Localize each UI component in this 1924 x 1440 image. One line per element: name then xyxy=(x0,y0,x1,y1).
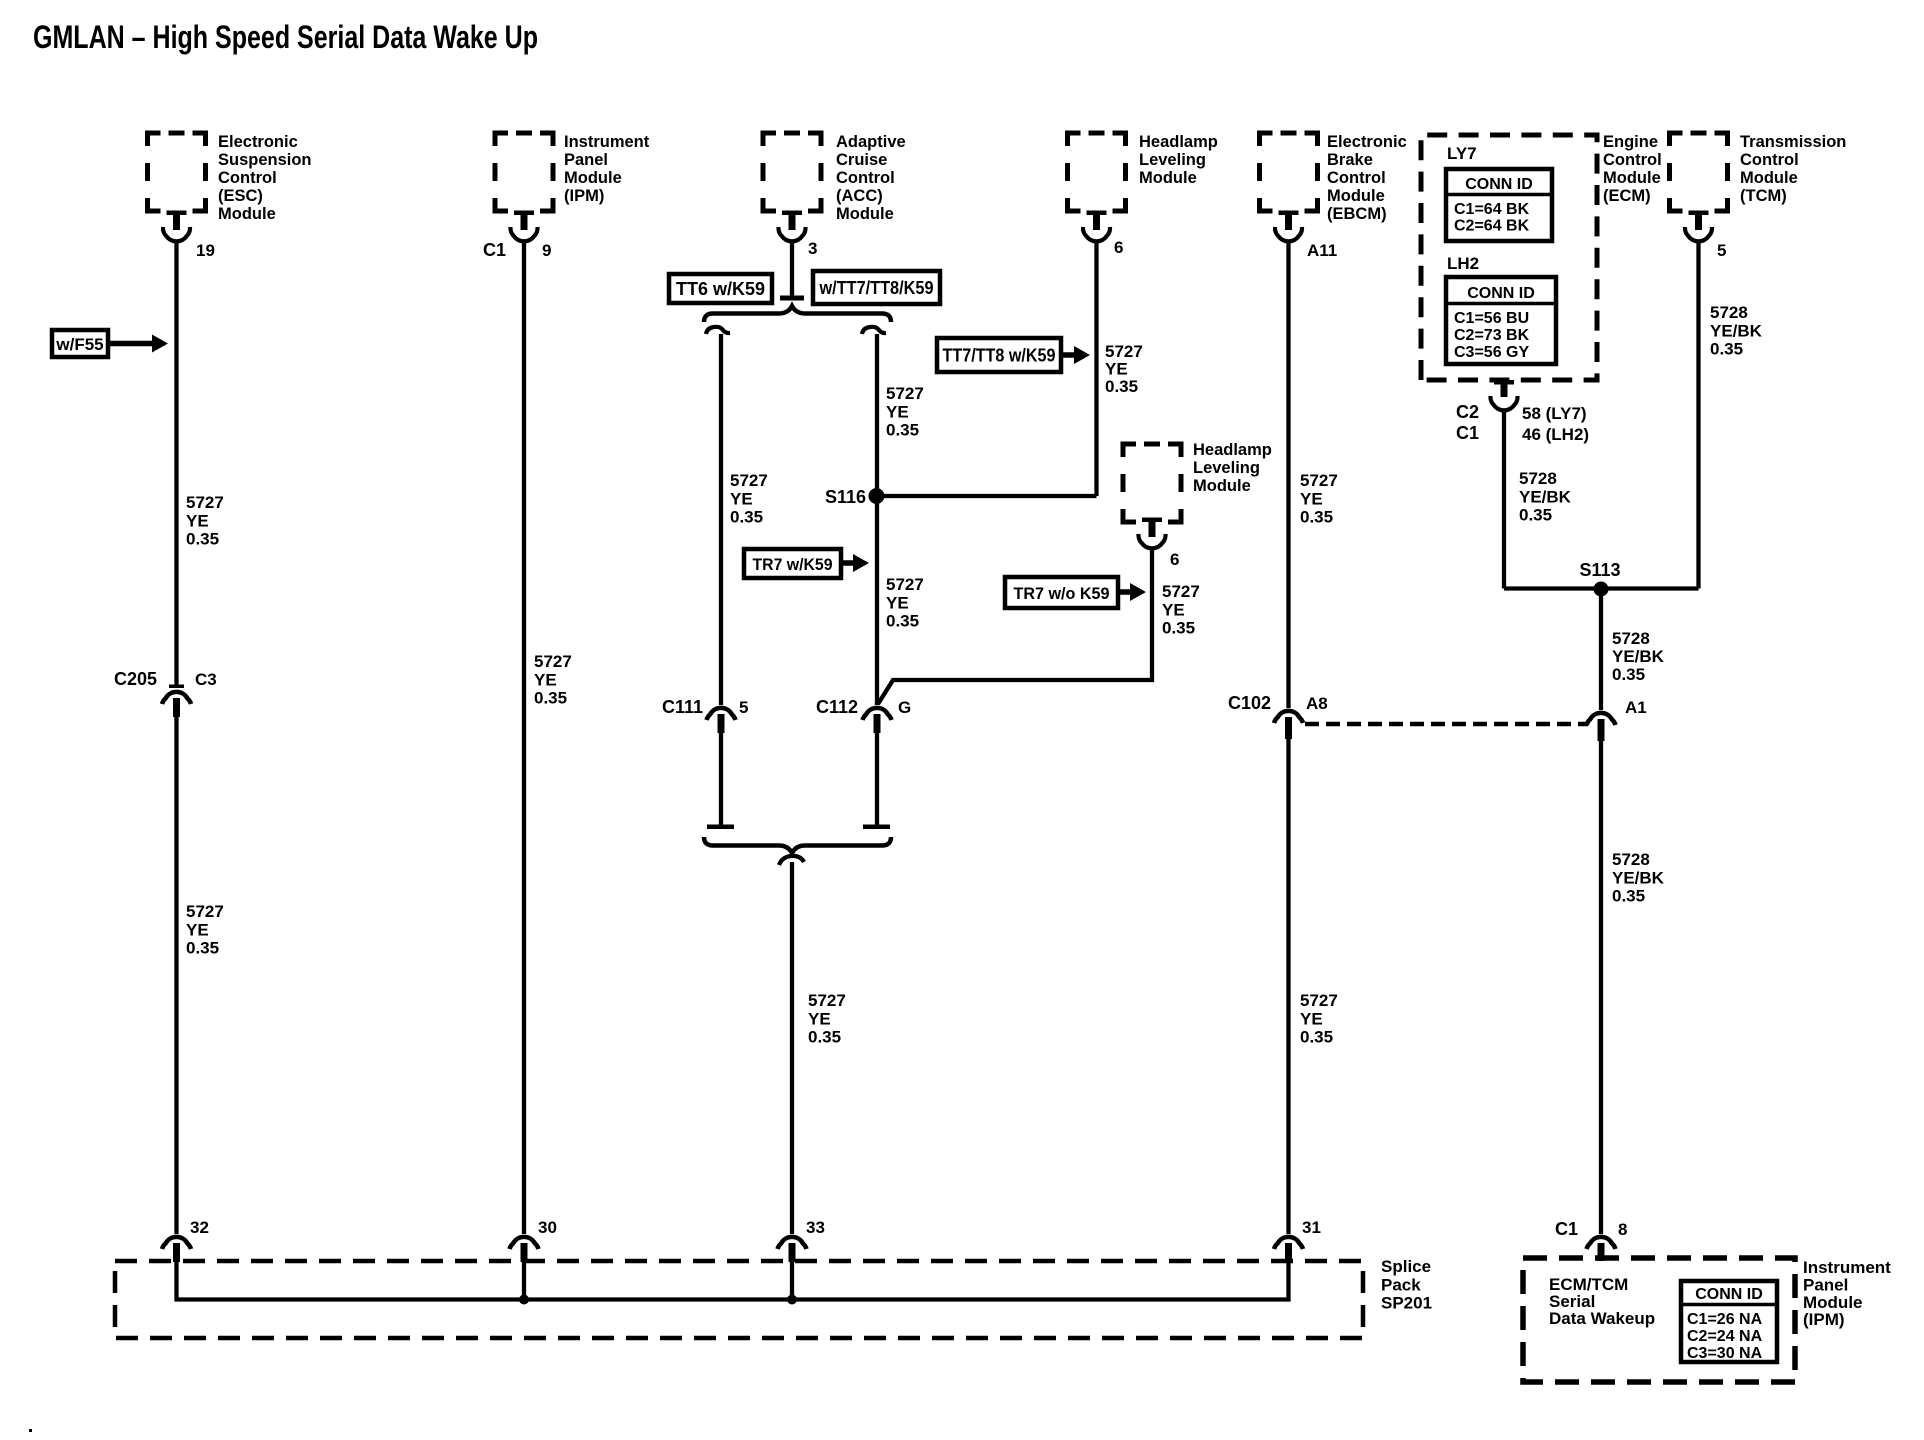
svg-text:Module: Module xyxy=(1327,187,1385,205)
svg-text:C102: C102 xyxy=(1228,693,1271,713)
svg-text:Headlamp: Headlamp xyxy=(1139,133,1218,151)
splice S113 xyxy=(1579,560,1620,597)
label LY7 xyxy=(1447,144,1477,163)
svg-text:S113: S113 xyxy=(1579,560,1620,580)
wire below C102 xyxy=(1286,739,1290,1234)
brace split top xyxy=(704,306,891,322)
svg-text:46 (LH2): 46 (LH2) xyxy=(1522,425,1589,444)
svg-text:Module: Module xyxy=(218,205,276,223)
svg-text:32: 32 xyxy=(190,1218,209,1237)
svg-text:YE: YE xyxy=(1300,489,1323,508)
svg-text:3: 3 xyxy=(808,239,817,258)
svg-text:YE: YE xyxy=(1162,600,1185,619)
connector C102 pin A8 xyxy=(1228,693,1328,739)
svg-text:C1=56 BU: C1=56 BU xyxy=(1454,310,1529,327)
svg-text:0.35: 0.35 xyxy=(886,612,919,631)
svg-text:0.35: 0.35 xyxy=(1300,1028,1333,1047)
foot of right branch xyxy=(863,825,890,830)
svg-text:A1: A1 xyxy=(1625,698,1647,717)
svg-text:Module: Module xyxy=(1740,169,1798,187)
svg-text:(TCM): (TCM) xyxy=(1740,187,1787,205)
wire into splice pack from 32 xyxy=(174,1262,178,1301)
connector C2 C1 of ECM xyxy=(1456,380,1589,444)
wire label 5728 YE/BK 0.35 (TCM) xyxy=(1710,303,1763,359)
label TT7/TT8 w/K59 xyxy=(937,338,1061,372)
connector at top of left branch xyxy=(706,327,730,334)
splice S116 xyxy=(825,487,885,507)
svg-text:5727: 5727 xyxy=(730,471,768,490)
svg-text:A11: A11 xyxy=(1307,241,1337,260)
svg-text:C1=64 BK: C1=64 BK xyxy=(1454,201,1530,218)
connector pin 19 of ESC xyxy=(163,211,215,261)
svg-text:Control: Control xyxy=(1327,169,1386,187)
svg-text:5728: 5728 xyxy=(1710,303,1748,322)
svg-text:C3=56 GY: C3=56 GY xyxy=(1454,344,1529,361)
dashed wire from A8 to A1 xyxy=(1305,722,1588,727)
svg-text:YE: YE xyxy=(1105,360,1128,379)
svg-text:0.35: 0.35 xyxy=(1612,887,1645,906)
svg-text:0.35: 0.35 xyxy=(186,939,219,958)
junction dot pin 33 xyxy=(787,1295,797,1305)
svg-text:Headlamp: Headlamp xyxy=(1193,441,1272,459)
svg-text:YE: YE xyxy=(808,1009,831,1028)
svg-text:C1: C1 xyxy=(1456,423,1479,443)
splice pack SP201 dashed box xyxy=(115,1261,1363,1338)
splice pack label xyxy=(1381,1257,1432,1313)
wire from S116 to headlamp wire xyxy=(877,494,1097,498)
svg-text:A8: A8 xyxy=(1306,694,1328,713)
svg-text:SP201: SP201 xyxy=(1381,1294,1432,1313)
svg-text:Control: Control xyxy=(836,169,895,187)
svg-text:0.35: 0.35 xyxy=(1300,508,1333,527)
label LH2 xyxy=(1447,254,1479,273)
wire label 5727 YE 0.35 (headlamp 2) xyxy=(1162,582,1200,638)
svg-text:YE: YE xyxy=(186,920,209,939)
module Headlamp Leveling dashed box xyxy=(1068,133,1126,211)
svg-text:Leveling: Leveling xyxy=(1139,151,1206,169)
connector C1 pin 8 at IPM xyxy=(1555,1219,1627,1261)
module Headlamp Leveling label xyxy=(1139,133,1218,187)
svg-text:YE/BK: YE/BK xyxy=(1612,647,1665,666)
svg-text:YE/BK: YE/BK xyxy=(1612,868,1665,887)
module ESC label xyxy=(218,133,312,223)
svg-text:Panel: Panel xyxy=(1803,1275,1848,1294)
module ESC dashed box xyxy=(148,133,206,211)
svg-text:Adaptive: Adaptive xyxy=(836,133,906,151)
svg-text:8: 8 xyxy=(1618,1220,1627,1239)
svg-text:(IPM): (IPM) xyxy=(1803,1310,1845,1329)
svg-text:YE: YE xyxy=(186,511,209,530)
svg-text:Module: Module xyxy=(836,205,894,223)
svg-text:C3: C3 xyxy=(195,670,217,689)
svg-text:C2: C2 xyxy=(1456,402,1479,422)
wire right branch 5727 YE lower xyxy=(875,496,879,705)
table LH2 CONN ID xyxy=(1446,277,1556,364)
svg-text:0.35: 0.35 xyxy=(1710,340,1743,359)
connector at top of right branch xyxy=(862,327,886,334)
wire label 5727 YE 0.35 (EBCM upper) xyxy=(1300,471,1338,527)
svg-text:Suspension: Suspension xyxy=(218,151,312,169)
svg-text:Cruise: Cruise xyxy=(836,151,887,169)
svg-text:0.35: 0.35 xyxy=(1519,506,1552,525)
svg-text:0.35: 0.35 xyxy=(534,689,567,708)
wire 5728 YE/BK below S113 xyxy=(1599,589,1603,710)
svg-text:9: 9 xyxy=(542,241,551,260)
svg-text:5: 5 xyxy=(739,698,748,717)
wire 5728 YE/BK below A1 xyxy=(1599,741,1603,1234)
wire label 5727 YE 0.35 (below S116) xyxy=(886,575,924,631)
svg-text:Transmission: Transmission xyxy=(1740,133,1846,151)
connector pin C1 9 of IPM xyxy=(483,211,551,261)
ECM/TCM wakeup label xyxy=(1549,1275,1655,1328)
connector pin 5 of TCM xyxy=(1685,211,1726,261)
svg-text:0.35: 0.35 xyxy=(1105,377,1138,396)
svg-text:Electronic: Electronic xyxy=(218,133,298,151)
arrow from w/F55 to wire xyxy=(108,335,168,353)
svg-text:5727: 5727 xyxy=(1300,991,1338,1010)
svg-text:(EBCM): (EBCM) xyxy=(1327,205,1387,223)
ECM conn-id dashed box xyxy=(1421,135,1597,380)
svg-text:6: 6 xyxy=(1114,238,1123,257)
svg-text:Instrument: Instrument xyxy=(564,133,650,151)
svg-text:0.35: 0.35 xyxy=(730,508,763,527)
wire into splice pack from 31 xyxy=(1286,1262,1290,1301)
svg-text:YE: YE xyxy=(534,670,557,689)
svg-text:0.35: 0.35 xyxy=(808,1028,841,1047)
label w/F55 xyxy=(52,330,108,357)
svg-text:YE/BK: YE/BK xyxy=(1710,321,1763,340)
wire label 5728 YE/BK 0.35 (ECM) xyxy=(1519,469,1572,525)
svg-text:YE: YE xyxy=(886,593,909,612)
module ECM label xyxy=(1603,133,1662,205)
svg-text:33: 33 xyxy=(806,1218,825,1237)
svg-text:w/F55: w/F55 xyxy=(55,335,103,354)
module ACC dashed box xyxy=(763,133,821,211)
svg-text:5727: 5727 xyxy=(1162,582,1200,601)
svg-text:YE/BK: YE/BK xyxy=(1519,487,1572,506)
svg-text:0.35: 0.35 xyxy=(1162,619,1195,638)
svg-text:Control: Control xyxy=(218,169,277,187)
connector C112 pin G xyxy=(816,697,911,733)
svg-text:5727: 5727 xyxy=(886,384,924,403)
wire 5727 YE from ESC pin 19 xyxy=(174,242,178,686)
svg-text:5727: 5727 xyxy=(534,652,572,671)
table LY7 CONN ID xyxy=(1446,169,1552,241)
module TCM label xyxy=(1740,133,1846,205)
svg-text:Splice: Splice xyxy=(1381,1257,1431,1276)
svg-text:5727: 5727 xyxy=(808,991,846,1010)
svg-text:Control: Control xyxy=(1603,151,1662,169)
module IPM label xyxy=(564,133,650,205)
svg-text:C2=24 NA: C2=24 NA xyxy=(1687,1328,1763,1345)
label TT6 w/K59 xyxy=(669,274,772,303)
svg-text:CONN ID: CONN ID xyxy=(1465,176,1533,193)
connector pin 3 of ACC xyxy=(778,211,817,259)
svg-text:19: 19 xyxy=(196,241,215,260)
wire 5727 YE from IPM pin 9 xyxy=(522,242,526,1234)
svg-text:TR7 w/K59: TR7 w/K59 xyxy=(753,555,833,574)
module EBCM dashed box xyxy=(1260,133,1318,211)
splice pack bus wire xyxy=(175,1297,1291,1301)
connector pin 31 xyxy=(1274,1218,1321,1262)
svg-text:(ACC): (ACC) xyxy=(836,187,883,205)
svg-text:Control: Control xyxy=(1740,151,1799,169)
svg-text:G: G xyxy=(898,698,911,717)
svg-text:S116: S116 xyxy=(825,487,866,507)
connector pin 32 xyxy=(162,1218,209,1262)
svg-text:w/TT7/TT8/K59: w/TT7/TT8/K59 xyxy=(819,278,934,298)
svg-text:C112: C112 xyxy=(816,697,858,717)
svg-text:58 (LY7): 58 (LY7) xyxy=(1522,404,1587,423)
svg-text:31: 31 xyxy=(1302,1218,1321,1237)
svg-text:Instrument: Instrument xyxy=(1803,1258,1891,1277)
svg-text:Engine: Engine xyxy=(1603,133,1658,151)
wire label 5727 YE 0.35 (left branch) xyxy=(730,471,768,527)
svg-text:30: 30 xyxy=(538,1218,557,1237)
wire right branch lower xyxy=(875,733,879,826)
label w/TT7/TT8/K59 xyxy=(813,271,940,304)
wire 5727 YE below C205 xyxy=(174,716,178,1234)
wire label 5727 YE 0.35 (ESC upper) xyxy=(186,493,224,549)
wire from ACC pin 3 xyxy=(780,242,804,301)
arrow from TT7/TT8 w/K59 to wire xyxy=(1061,346,1090,364)
svg-text:Module: Module xyxy=(1193,477,1251,495)
module IPM (bottom) label xyxy=(1803,1258,1891,1329)
module IPM dashed box xyxy=(495,133,553,211)
svg-text:Module: Module xyxy=(1803,1293,1863,1312)
svg-text:LH2: LH2 xyxy=(1447,254,1479,273)
module Headlamp Leveling 2 label xyxy=(1193,441,1272,495)
wire label 5727 YE 0.35 (EBCM lower) xyxy=(1300,991,1338,1047)
svg-text:5: 5 xyxy=(1717,241,1726,260)
svg-text:Electronic: Electronic xyxy=(1327,133,1407,151)
svg-text:Data Wakeup: Data Wakeup xyxy=(1549,1309,1655,1328)
svg-text:5727: 5727 xyxy=(1105,342,1143,361)
svg-text:TT6 w/K59: TT6 w/K59 xyxy=(676,279,765,299)
connector A1 xyxy=(1587,698,1647,741)
svg-text:(ESC): (ESC) xyxy=(218,187,263,205)
svg-text:(IPM): (IPM) xyxy=(564,187,604,205)
svg-text:5727: 5727 xyxy=(886,575,924,594)
wire into splice pack from 33 xyxy=(790,1262,794,1299)
brace merge bottom xyxy=(704,837,891,853)
svg-text:Leveling: Leveling xyxy=(1193,459,1260,477)
svg-text:YE: YE xyxy=(1300,1009,1323,1028)
svg-text:5728: 5728 xyxy=(1519,469,1557,488)
svg-text:0.35: 0.35 xyxy=(1612,665,1645,684)
svg-text:C3=30 NA: C3=30 NA xyxy=(1687,1345,1763,1362)
wire label 5727 YE 0.35 (ESC lower) xyxy=(186,902,224,958)
wire right branch 5727 YE upper xyxy=(875,334,879,496)
module EBCM label xyxy=(1327,133,1407,223)
svg-text:C1: C1 xyxy=(483,240,506,260)
svg-text:YE: YE xyxy=(886,402,909,421)
title xyxy=(33,19,538,55)
wire label 5727 YE 0.35 (merged branch) xyxy=(808,991,846,1047)
module TCM dashed box xyxy=(1670,133,1728,211)
svg-text:YE: YE xyxy=(730,489,753,508)
arrow from TR7 w/o K59 to wire xyxy=(1118,583,1146,601)
ECM/TCM wakeup dashed box xyxy=(1523,1258,1795,1382)
module ACC label xyxy=(836,133,906,223)
svg-text:CONN ID: CONN ID xyxy=(1467,285,1535,302)
wire 5727 YE to splice pack pin 33 xyxy=(790,862,794,1234)
wire left branch lower xyxy=(719,733,723,826)
svg-text:C2=64 BK: C2=64 BK xyxy=(1454,218,1530,235)
wire label 5728 YE/BK 0.35 (below S113) xyxy=(1612,629,1665,684)
svg-text:5727: 5727 xyxy=(186,493,224,512)
connector C111 pin 5 xyxy=(662,697,749,733)
svg-text:C111: C111 xyxy=(662,697,703,717)
svg-text:Panel: Panel xyxy=(564,151,608,169)
wire 5727 YE from headlamp pin 6 xyxy=(1094,242,1098,496)
label TR7 w/K59 xyxy=(744,549,841,578)
svg-text:TT7/TT8 w/K59: TT7/TT8 w/K59 xyxy=(943,346,1056,366)
svg-text:0.35: 0.35 xyxy=(186,530,219,549)
svg-text:TR7 w/o K59: TR7 w/o K59 xyxy=(1014,584,1110,603)
svg-text:CONN ID: CONN ID xyxy=(1695,1286,1763,1303)
svg-text:Pack: Pack xyxy=(1381,1275,1421,1294)
connector pin 6 of Headlamp Leveling xyxy=(1083,211,1123,258)
svg-text:C205: C205 xyxy=(114,669,157,689)
svg-text:Module: Module xyxy=(1603,169,1661,187)
table IPM CONN ID xyxy=(1681,1281,1777,1362)
wire into splice pack from 30 xyxy=(522,1262,526,1299)
svg-text:Brake: Brake xyxy=(1327,151,1373,169)
connector below merge brace xyxy=(779,856,804,865)
module Headlamp Leveling 2 dashed box xyxy=(1123,444,1181,522)
arrow from TR7 w/K59 to wire xyxy=(841,554,869,572)
wire label 5727 YE 0.35 (IPM) xyxy=(534,652,572,708)
svg-text:C1=26 NA: C1=26 NA xyxy=(1687,1311,1763,1328)
svg-text:GMLAN – High Speed Serial Data: GMLAN – High Speed Serial Data Wake Up xyxy=(33,19,538,55)
svg-text:6: 6 xyxy=(1170,550,1179,569)
connector pin 6 of Headlamp Leveling 2 xyxy=(1138,518,1179,570)
svg-text:5727: 5727 xyxy=(1300,471,1338,490)
svg-text:LY7: LY7 xyxy=(1447,144,1477,163)
svg-text:C1: C1 xyxy=(1555,1219,1578,1239)
svg-text:Module: Module xyxy=(564,169,622,187)
label TR7 w/o K59 xyxy=(1005,577,1118,608)
wire 5728 YE/BK from TCM xyxy=(1696,242,1700,589)
junction dot pin 30 xyxy=(519,1295,529,1305)
svg-text:5728: 5728 xyxy=(1612,850,1650,869)
svg-text:(ECM): (ECM) xyxy=(1603,187,1651,205)
svg-text:5727: 5727 xyxy=(186,902,224,921)
svg-text:0.35: 0.35 xyxy=(886,421,919,440)
wire 5727 YE from EBCM xyxy=(1286,242,1290,708)
svg-text:Module: Module xyxy=(1139,169,1197,187)
connector C205 C3 xyxy=(114,669,217,717)
wire label 5727 YE 0.35 (headlamp) xyxy=(1105,342,1143,396)
svg-text:5728: 5728 xyxy=(1612,629,1650,648)
foot of left branch xyxy=(707,825,734,830)
wire 5727 YE from headlamp 2 xyxy=(878,549,1152,704)
wire left branch 5727 YE xyxy=(719,334,723,705)
wire 5728 YE/BK from ECM xyxy=(1504,409,1699,589)
svg-text:C2=73 BK: C2=73 BK xyxy=(1454,327,1530,344)
page mark xyxy=(29,1429,32,1432)
connector pin A11 of EBCM xyxy=(1275,211,1337,261)
wire label 5728 YE/BK 0.35 (above IPM) xyxy=(1612,850,1665,906)
connector pin 33 xyxy=(778,1218,825,1262)
connector pin 30 xyxy=(510,1218,557,1262)
wire label 5727 YE 0.35 (right branch upper) xyxy=(886,384,924,440)
